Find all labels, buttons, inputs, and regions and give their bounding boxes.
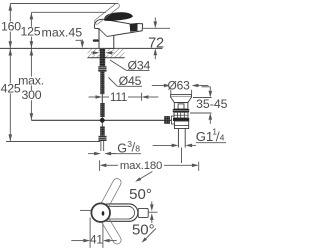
svg-text:50°: 50° (129, 186, 152, 203)
mounting nut (98, 66, 106, 71)
svg-text:50°: 50° (132, 222, 155, 239)
svg-text:125: 125 (20, 25, 40, 39)
svg-text:72: 72 (148, 35, 164, 51)
aerator shaded face (130, 24, 138, 32)
35-45 extension lines (193, 97, 212, 99)
lower 50 leader (144, 229, 156, 241)
max.45 leader (76, 39, 83, 41)
flexible hose lower knurl (100, 103, 104, 117)
111 arrows (96, 95, 103, 99)
G3/8 arrows (94, 152, 101, 156)
svg-text:G1: G1 (196, 129, 213, 144)
rod attachment lug (172, 116, 175, 124)
35-45 arrows (209, 91, 213, 98)
svg-text:300: 300 (21, 88, 41, 102)
hose centre line (101, 94, 103, 103)
svg-text:4: 4 (220, 133, 225, 143)
dimension max.300 arrows (30, 49, 34, 56)
dimension 160 arrows (9, 4, 13, 11)
hose thin section (101, 117, 103, 126)
svg-text:G: G (117, 141, 127, 155)
mounting deck top surface (0, 47, 162, 49)
G1 1/4 arrows (172, 144, 179, 148)
Ø63 extension lines (170, 90, 172, 95)
dimension 125 line (30, 12, 32, 48)
dimension 125 label (21, 27, 39, 37)
dimension 160 line (9, 4, 11, 49)
svg-text:111: 111 (110, 90, 127, 104)
rod junction node (100, 118, 105, 123)
cartridge pin (102, 211, 105, 216)
Ø34 leader (110, 60, 126, 70)
body-spout joint line (99, 29, 107, 37)
dimension 125 arrows (30, 13, 34, 20)
waste knob (174, 103, 188, 109)
72 extension line from aerator (142, 27, 170, 29)
waste tailpipe (177, 129, 179, 148)
111 tick at faucet centre (101, 93, 103, 101)
max.180 ticks (99, 160, 101, 171)
41 arrows (83, 239, 90, 243)
41 label (91, 235, 101, 244)
svg-text:3: 3 (127, 139, 132, 149)
dimension 425 line (9, 48, 11, 141)
faucet body (95, 19, 143, 48)
lever handle at rest (104, 12, 132, 20)
handle outline top view (100, 204, 138, 221)
waste lower dark band (173, 118, 189, 121)
svg-text:41: 41 (90, 232, 103, 246)
rod adjuster block (165, 116, 170, 123)
111 tick at spout outlet (141, 93, 143, 101)
handle inner contour (99, 206, 135, 219)
svg-text:8: 8 (135, 144, 140, 154)
svg-text:160: 160 (1, 20, 21, 34)
waste body (174, 112, 188, 118)
G1 1/4 underline (196, 142, 226, 144)
41 extension lines (89, 218, 91, 248)
svg-text:Ø34: Ø34 (128, 58, 151, 72)
pop-up rod line (31, 119, 172, 121)
raised lever ghost outline (93, 2, 120, 25)
handle tip block (138, 208, 148, 217)
tailpipe centre line (180, 148, 182, 164)
G3/8 nipple (100, 141, 102, 151)
Ø34 arrows (93, 51, 100, 55)
dimension max.300 label (20, 77, 43, 86)
extension line, lever rest top (125 ref) (31, 11, 106, 13)
upper 50 leader (138, 172, 153, 181)
waste flange top (171, 95, 192, 97)
Ø45 leader (109, 78, 118, 87)
faucet body circle top view (91, 203, 110, 222)
waste seal ring dark band (173, 109, 189, 112)
waste hex nut (174, 121, 188, 129)
Ø63 label (169, 80, 189, 90)
hose end knurl (100, 126, 105, 135)
svg-text:Ø45: Ø45 (119, 74, 142, 88)
dimension 425 label (1, 83, 20, 93)
deck hatched section right (105, 49, 124, 58)
spout underside inner line (107, 35, 114, 36)
Ø34 arrow white band (92, 51, 100, 55)
handle swing ghost lower (99, 213, 123, 245)
hose nut (99, 136, 107, 141)
41 leader from circle (80, 209, 91, 211)
flexible hose upper knurl (100, 72, 104, 95)
svg-text:max.: max. (18, 74, 44, 88)
425 extension line (6, 141, 100, 143)
extension line, top of raised lever (160 ref) (10, 3, 118, 5)
svg-text:max.45: max.45 (42, 25, 83, 39)
deck hatched section left (88, 49, 100, 58)
pull rod knob (93, 39, 99, 41)
dimension max.300 line (30, 48, 32, 120)
deck bottom line (88, 57, 125, 59)
dimension 72 arrows (154, 22, 158, 29)
aerator tip separation (136, 24, 138, 31)
G3/8 leader underline (110, 153, 116, 155)
111 line segments (102, 96, 109, 98)
waste flange taper (171, 97, 192, 103)
angle vertex arrows (150, 204, 154, 211)
tip centre line (148, 211, 157, 213)
threaded shank through deck (100, 48, 106, 66)
svg-text:max.180: max.180 (120, 160, 162, 172)
svg-text:35-45: 35-45 (196, 97, 228, 111)
svg-text:1: 1 (212, 126, 217, 136)
dimension 160 label (2, 22, 21, 32)
Ø63 arrows (164, 84, 171, 88)
Ø63 line to 35-45 (202, 86, 211, 88)
max.180 arrows (100, 164, 107, 168)
dimension 425 arrows (9, 49, 13, 56)
max.180 line segments (111, 164, 118, 166)
111 label (110, 93, 128, 102)
handle swing ghost upper (99, 177, 123, 212)
